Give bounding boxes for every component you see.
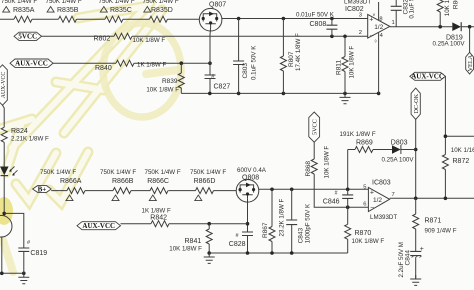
svg-text:C808: C808 [310, 21, 327, 28]
svg-text:R835B: R835B [57, 7, 79, 14]
capacitor C843 1000pF 50V K [291, 189, 293, 253]
svg-text:R835D: R835D [151, 7, 173, 14]
node junction C803 top [237, 17, 241, 21]
svg-text:5VCC: 5VCC [18, 33, 37, 41]
svg-text:2.2uF 50V M: 2.2uF 50V M [398, 242, 405, 277]
net AUX-VCC flag (left edge, vertical) [0, 65, 7, 105]
capacitor C803 0.1uF 50V K [238, 19, 240, 94]
svg-text:AUX-VCC: AUX-VCC [1, 72, 7, 99]
svg-text:R866B: R866B [112, 178, 134, 185]
resistor R865 10K 1/8W F [439, 12, 441, 27]
svg-text:B+: B+ [38, 185, 47, 193]
wire R869 left down to pin5 node [347, 150, 349, 190]
capacitor C832 0.1uF 50V K [395, 0, 397, 27]
svg-text:LM393DT: LM393DT [344, 0, 371, 5]
svg-text:R868: R868 [305, 161, 312, 177]
svg-text:2: 2 [359, 30, 362, 36]
svg-text:C828: C828 [229, 241, 246, 248]
ground symbol (C844) [410, 275, 421, 285]
resistor R869 191K 1/8W F [348, 149, 392, 151]
svg-text:R839: R839 [162, 78, 178, 85]
svg-text:DC-OK: DC-OK [413, 93, 420, 113]
svg-text:10K 1/8W F: 10K 1/8W F [323, 146, 330, 179]
svg-text:750K 1/4W F: 750K 1/4W F [145, 169, 181, 176]
op-amp IC803 LM393DT 1/2 [368, 187, 389, 211]
wire Q808 collector to IC803 pin5 [259, 188, 369, 190]
wire AUX-VCC to R840 to Q807 base [53, 62, 210, 64]
svg-text:191K 1/8W F: 191K 1/8W F [340, 131, 376, 138]
pin 8 power stub [378, 2, 380, 20]
svg-text:R865: R865 [452, 0, 459, 9]
resistor R868 10K 1/8W F [311, 159, 317, 174]
svg-text:R842: R842 [150, 215, 167, 222]
wire Q807 base down through C827 to ground bus [209, 28, 212, 94]
svg-text:0.1uF 50V K: 0.1uF 50V K [409, 0, 416, 19]
resistor R835D 750K 1/4W F [150, 16, 168, 22]
diode D819 0.25A 100V [452, 22, 461, 31]
phototransistor Q8xx (optocoupler) [0, 215, 12, 237]
svg-text:R869: R869 [356, 140, 373, 147]
wire ground bus y=93.4 [181, 92, 378, 94]
svg-text:750K 1/4W F: 750K 1/4W F [99, 0, 135, 5]
node junction R867 top [270, 188, 274, 192]
svg-text:C827: C827 [214, 83, 231, 90]
svg-text:R841: R841 [185, 238, 202, 245]
transistor Q808 600V 0.4A [236, 180, 259, 203]
node junction C843 top [290, 188, 294, 192]
node junction R839 top [180, 61, 184, 65]
svg-text:IC803: IC803 [372, 179, 391, 186]
wire AUX-VCC down to R824 [3, 105, 5, 127]
node junctions on ground bus [208, 92, 212, 96]
node junction R865 bottom [438, 25, 442, 29]
svg-text:10K 1/8W F: 10K 1/8W F [169, 246, 202, 253]
svg-text:10K 1/8W F: 10K 1/8W F [133, 37, 166, 44]
svg-text:0.01uF 50V K: 0.01uF 50V K [296, 12, 335, 19]
resistor R870 10K 1/8W F [347, 207, 349, 253]
resistor R835A 750K 1/4W F [14, 16, 32, 22]
svg-text:R802: R802 [94, 36, 111, 43]
wire AUX-VCC down through R872 to IC803 output [445, 76, 474, 198]
svg-text:3: 3 [359, 13, 362, 19]
svg-text:+: + [370, 189, 374, 196]
resistor R871 909 1/4W F [415, 198, 417, 251]
svg-text:C819: C819 [30, 250, 47, 257]
svg-text:10K 1/8W F: 10K 1/8W F [349, 46, 356, 79]
resistor R841 10K 1/8W F [208, 224, 210, 253]
svg-text:C846: C846 [323, 199, 340, 206]
svg-text:750K 1/4W F: 750K 1/4W F [190, 169, 226, 176]
node junction VELA drop [468, 25, 472, 29]
svg-text:750K 1/4W F: 750K 1/4W F [1, 0, 37, 5]
svg-text:5VCC: 5VCC [312, 119, 319, 135]
resistor R835C 750K 1/4W F [105, 16, 123, 22]
svg-text:VELA: VELA [467, 54, 474, 71]
resistor R824 2.21K 1/8W F [1, 127, 7, 142]
wire photodiode to phototransistor [3, 176, 5, 216]
svg-text:R866C: R866C [147, 178, 169, 185]
node junction C846 top / R869 [346, 188, 350, 192]
svg-text:R835A: R835A [13, 7, 35, 14]
node junction R811 top [343, 35, 347, 39]
node junctions on feedback line [246, 251, 250, 255]
svg-text:8: 8 [379, 17, 382, 23]
resistor R840 1K 1/8W F [116, 60, 134, 66]
svg-text:Q807: Q807 [209, 1, 226, 8]
svg-text:10K 1/16W: 10K 1/16W [451, 147, 474, 154]
svg-text:1/2: 1/2 [374, 24, 383, 31]
node junction C808 top [330, 17, 334, 21]
svg-text:750K 1/4W F: 750K 1/4W F [143, 0, 179, 5]
resistor R866A 750K 1/4W F [67, 188, 85, 194]
node junction R872 bottom [444, 197, 448, 201]
svg-text:1000pF 50V K: 1000pF 50V K [304, 203, 311, 243]
capacitor C828 [242, 232, 253, 236]
node junction C846 bottom / R870 [346, 205, 350, 209]
node junction R872 top [444, 134, 448, 138]
photodiode D8xx (optocoupler) [0, 167, 9, 176]
wire top B+ sense line y=19.2 [0, 18, 199, 20]
wire Q808 base down to R842 line and C828 [247, 199, 249, 253]
resistor R811 10K 1/8W F [344, 36, 346, 93]
wire R824 to photodiode [3, 142, 5, 166]
node junction R841 top [207, 222, 211, 226]
svg-text:R871: R871 [425, 218, 442, 225]
resistor R842 1K 1/8W F [151, 221, 169, 227]
svg-text:5: 5 [363, 184, 366, 190]
wire emitter down to ground line [2, 237, 24, 273]
svg-text:R840: R840 [95, 65, 112, 72]
svg-text:10K 1/8W F: 10K 1/8W F [146, 86, 179, 93]
resistor R802 10K 1/8W F [114, 33, 132, 39]
svg-text:1/2: 1/2 [373, 197, 382, 204]
svg-text:C803: C803 [242, 63, 249, 79]
net B+ flag [33, 186, 52, 193]
resistor R866C 750K 1/4W F [150, 188, 168, 194]
svg-text:+: + [369, 17, 373, 24]
svg-text:2.21K 1/8W F: 2.21K 1/8W F [11, 136, 49, 143]
svg-text:+: + [420, 246, 424, 253]
capacitor C827 [205, 75, 216, 79]
svg-text:−: − [370, 205, 374, 212]
svg-text:23.2K 1/8W F: 23.2K 1/8W F [278, 198, 285, 236]
svg-text:6: 6 [363, 202, 366, 208]
svg-text:17.4K 1/8W F: 17.4K 1/8W F [295, 33, 302, 71]
node junction C808 bottom [330, 35, 334, 39]
svg-text:R870: R870 [355, 230, 372, 237]
wire IC802 output to right edge [390, 26, 474, 28]
svg-text:1: 1 [392, 20, 395, 26]
wire IC803 output to right edge [390, 197, 474, 199]
svg-text:LM393DT: LM393DT [370, 214, 397, 221]
pin 4 power stub to ground bus [378, 33, 380, 94]
svg-text:600V 0.4A: 600V 0.4A [237, 167, 267, 174]
resistor R835B 750K 1/4W F [59, 16, 77, 22]
svg-text:750K 1/4W F: 750K 1/4W F [100, 169, 136, 176]
wire to VELA [469, 27, 471, 53]
ground symbol (C819) [18, 273, 29, 283]
svg-text:R835C: R835C [110, 7, 132, 14]
svg-text:R866D: R866D [194, 178, 216, 185]
resistor R807 17.4K 1/8W F [282, 19, 284, 94]
svg-text:AUX-VCC: AUX-VCC [411, 73, 444, 81]
resistor R839 10K 1/8W F [180, 63, 182, 93]
svg-text:−: − [370, 33, 374, 40]
svg-text:10K 1/8W F: 10K 1/8W F [352, 238, 385, 245]
svg-text:AUX-VCC: AUX-VCC [82, 222, 115, 230]
net AUX-VCC flag (right) [410, 72, 446, 80]
wire AUX-VCC to R842 to Q808 base [121, 223, 248, 225]
node junction R807 top [282, 17, 286, 21]
node junction Q808 base / R842 [246, 222, 250, 226]
svg-text:R824: R824 [11, 128, 28, 135]
wire B+ through R866A-D to Q808 [51, 190, 236, 192]
svg-text:750K 1/4W F: 750K 1/4W F [40, 169, 76, 176]
ground symbol (R841) [207, 251, 211, 255]
node junction C819 branch [2, 212, 6, 216]
capacitor C819 [4, 213, 24, 273]
resistor R866B 750K 1/4W F [113, 188, 131, 194]
svg-text:Q808: Q808 [242, 174, 259, 181]
resistor R872 10K 1/16W [442, 155, 448, 170]
svg-text:0.25A 100V: 0.25A 100V [382, 157, 415, 164]
svg-text:909 1/4W F: 909 1/4W F [425, 228, 457, 235]
node junction Q807 base / C827 [208, 61, 212, 65]
capacitor C846 [347, 189, 349, 207]
wire DC-OK down to IC803 output [415, 119, 417, 198]
ground symbol (bus) [340, 93, 351, 103]
wire Q807 collector to IC802 pin3 [222, 18, 368, 20]
svg-text:R867: R867 [262, 222, 269, 238]
node junction R871 / DC-OK [414, 197, 418, 201]
wire bottom feedback line y=253 [209, 252, 348, 254]
wire 5VCC to R802 to IC802 pin2 [42, 35, 368, 37]
diode D803 0.25A 100V [392, 145, 401, 154]
capacitor C808 0.01uF 50V K [331, 19, 333, 37]
wire branch down to pin6 [314, 189, 368, 207]
net 5VCC flag [14, 32, 42, 40]
transistor Q807 [199, 8, 222, 31]
svg-text:C844: C844 [404, 250, 411, 266]
net AUX-VCC flag [10, 59, 53, 67]
resistor R867 23.2K 1/8W F [271, 189, 273, 253]
capacitor C844 2.2uF 50V M electrolytic [410, 251, 421, 255]
svg-text:AUX-VCC: AUX-VCC [15, 60, 48, 68]
watermark [0, 3, 162, 202]
svg-text:1K 1/8W F: 1K 1/8W F [137, 61, 166, 68]
svg-text:7: 7 [392, 192, 395, 198]
net DC-OK flag [411, 88, 420, 119]
svg-text:R811: R811 [336, 60, 343, 75]
svg-text:0.1uF 50V K: 0.1uF 50V K [251, 45, 258, 80]
svg-text:10K 1/8W F: 10K 1/8W F [444, 0, 451, 16]
node junction D803 cathode [414, 148, 418, 152]
resistor R866D 750K 1/4W F [196, 188, 214, 194]
svg-text:750K 1/4W F: 750K 1/4W F [46, 0, 82, 5]
svg-text:D803: D803 [391, 139, 408, 146]
net 5VCC flag (middle) [309, 112, 320, 142]
svg-text:R872: R872 [453, 158, 470, 165]
svg-text:0.25A 100V: 0.25A 100V [433, 41, 466, 48]
net AUX-VCC flag (lower) [77, 222, 121, 230]
svg-text:R866A: R866A [60, 178, 82, 185]
svg-text:1K 1/8W F: 1K 1/8W F [142, 208, 171, 215]
wire 5VCC down through R868 to pin5 line [313, 142, 315, 189]
net VELA flag [466, 52, 474, 74]
op-amp IC802 LM393DT 1/2 [368, 14, 390, 38]
